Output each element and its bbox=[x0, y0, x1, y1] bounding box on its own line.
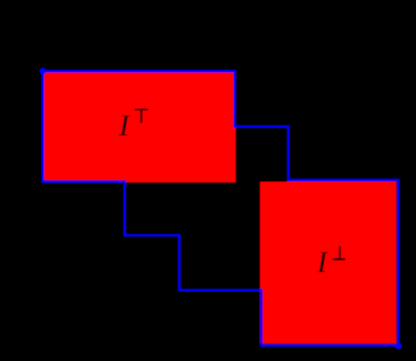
svg-text:I: I bbox=[316, 244, 329, 279]
svg-text:I: I bbox=[118, 107, 131, 142]
